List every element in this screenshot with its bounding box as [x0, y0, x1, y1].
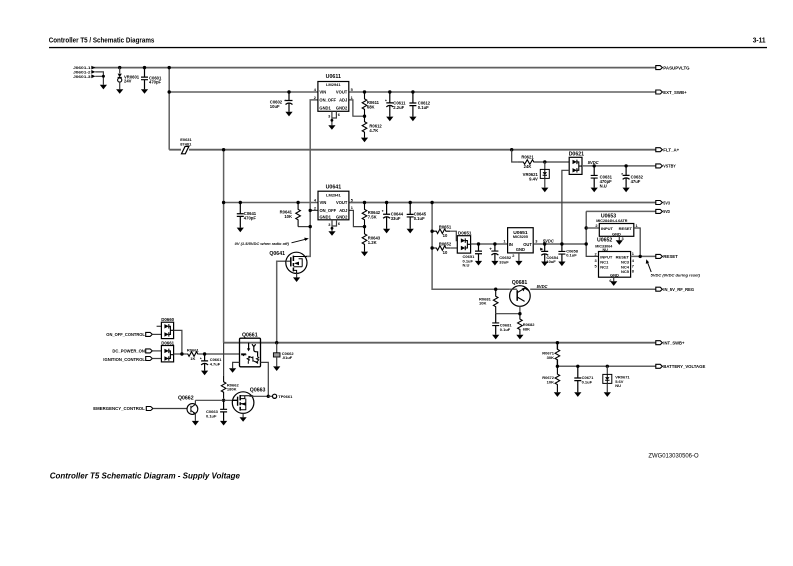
svg-text:GND: GND [612, 231, 621, 236]
ground for Q0662 [192, 421, 199, 426]
junction dot Q0661 on INT_SWB+ bus [275, 341, 278, 344]
capacitor C0602 10uF (polarized) [286, 92, 293, 101]
wire Q0661 emitter to ground [233, 362, 240, 368]
connector RESET [656, 254, 663, 258]
wire U0641 ON_OFF stub [310, 209, 318, 211]
svg-text:N.U: N.U [600, 183, 607, 188]
svg-text:GND1: GND1 [319, 106, 331, 111]
wire U0653 RESET down to RESET line [634, 228, 640, 256]
svg-text:IGNITION_CONTROL: IGNITION_CONTROL [103, 357, 145, 362]
svg-text:U0641: U0641 [326, 184, 342, 190]
svg-text:D0621: D0621 [569, 151, 584, 157]
wire D0660 output down to R0661 node [174, 330, 182, 354]
wire Q0681 base to divider [519, 306, 521, 313]
junction dot R0681 [494, 288, 497, 291]
wire R0641 bottom to ON_OFF vertical [298, 226, 310, 228]
resistor R0651 10 [432, 229, 450, 234]
svg-text:VIN: VIN [320, 200, 327, 205]
connector VSTBY [656, 164, 663, 168]
svg-text:PASUPVLTG: PASUPVLTG [663, 65, 690, 70]
resistor R0652 10 [432, 246, 450, 251]
resistor R0621 24K [518, 160, 540, 165]
svg-text:30K: 30K [547, 355, 554, 360]
connector 5V3 [656, 201, 663, 205]
wire D0651 output to U0651 IN [471, 243, 508, 245]
ground for C0602 [285, 112, 292, 117]
wire BATTERY_VOLTAGE line [557, 365, 656, 367]
svg-text:Controller T5 Schematic Diagra: Controller T5 Schematic Diagram - Supply… [50, 471, 241, 480]
svg-text:10: 10 [443, 250, 448, 255]
svg-text:0.1uF: 0.1uF [582, 380, 593, 385]
svg-text:180K: 180K [227, 387, 237, 392]
svg-text:R0621: R0621 [521, 155, 534, 160]
svg-text:VOUT: VOUT [336, 200, 348, 205]
svg-text:87401: 87401 [180, 142, 192, 147]
svg-text:10K: 10K [479, 301, 486, 306]
ground for R0682 [516, 335, 523, 340]
svg-text:.01uF: .01uF [282, 355, 293, 360]
ground for C0671 [574, 392, 581, 397]
svg-text:DC_POWER_ON: DC_POWER_ON [112, 349, 145, 354]
svg-text:10K: 10K [547, 379, 554, 384]
svg-text:LM2941: LM2941 [326, 82, 341, 87]
svg-text:EMERGENCY_CONTROL: EMERGENCY_CONTROL [93, 406, 145, 411]
svg-text:5V3: 5V3 [663, 200, 670, 205]
svg-text:GND: GND [516, 247, 525, 252]
resistor R0611 68K [362, 92, 367, 116]
capacitor C0681 0.1uF [492, 314, 499, 335]
ground for C0654 [541, 262, 548, 267]
svg-text:47uF: 47uF [631, 179, 641, 184]
wire down from FLT bus to R0621 [512, 150, 518, 162]
wire Q0641 source to ground [296, 273, 298, 277]
resistor R0671 30K [555, 343, 560, 367]
wire U0611 ADJ to R0611/R0612 junction [349, 100, 365, 116]
wire Q0681 to IN_5V_RF_REG connector [530, 288, 656, 290]
svg-text:GND: GND [610, 272, 619, 277]
svg-text:0.1uF: 0.1uF [566, 253, 577, 258]
wire ON_OFF_CONTROL to D0660 [152, 333, 161, 335]
capacitor C0641 470pF [239, 201, 242, 204]
svg-text:Controller T5 / Schematic Diag: Controller T5 / Schematic Diagrams [49, 37, 155, 44]
svg-text:7.5K: 7.5K [368, 215, 377, 220]
ground for C0612 [409, 117, 416, 122]
ground for C0601 [141, 89, 148, 94]
wire battery divider tap line [556, 343, 558, 367]
resistor R0642 7.5K [362, 203, 367, 227]
U0651 GND pin to ground [518, 253, 520, 261]
svg-text:2.2uF: 2.2uF [393, 105, 404, 110]
svg-text:Q0662: Q0662 [178, 396, 194, 402]
ground for VR0621 [541, 188, 548, 193]
wire Q0662 collector line to Q0663 gate [195, 399, 232, 401]
ground for C0658 [558, 262, 565, 267]
wire long vertical A+ branch x=223.6 [223, 150, 225, 343]
wire 5V3 bus from U0641 VOUT to connector [349, 202, 657, 204]
wire FLT_A+ bus (through E0631 bead) [169, 149, 656, 151]
junction dot ADJ node [363, 115, 366, 118]
svg-text:VSTBY: VSTBY [663, 164, 676, 169]
wire A+ top bus [92, 67, 657, 69]
junction dot C0654 [543, 242, 546, 245]
svg-text:ON_OFF: ON_OFF [319, 97, 336, 102]
wire 5VDC vertical to reset ICs [586, 211, 598, 256]
header rule [49, 47, 767, 48]
junction dot VR0601 [118, 66, 121, 69]
capacitor C0663 0.1uF [220, 400, 227, 421]
junction dot C0612 [411, 90, 414, 93]
resistor R0682 68K [518, 314, 523, 335]
junction dot C0645 [409, 201, 412, 204]
svg-text:5VDC: 5VDC [537, 284, 548, 289]
junction dot 5VD feed branch [430, 201, 433, 204]
svg-text:IN_5V_RF_REG: IN_5V_RF_REG [663, 287, 694, 292]
op-amp U0651 MIC5205 regulator box [508, 228, 534, 253]
wire Q0662 emitter to ground [194, 414, 196, 421]
junction dot C0631 [593, 164, 596, 167]
svg-text:ON_OFF: ON_OFF [320, 208, 337, 213]
connector 5VD [656, 209, 663, 213]
svg-text:J0601-3: J0601-3 [73, 74, 91, 79]
wire U0611 VOUT to EXT_SWB+ connector [349, 91, 657, 93]
op-amp U0641 LM2941 regulator box [318, 191, 349, 220]
wire U0652 RESET to RESET connector [631, 255, 657, 257]
junction dot TP line [267, 395, 270, 398]
wire DC_POWER_ON to D0661 [152, 350, 161, 352]
ground for U0653 [616, 240, 623, 245]
junction dot R0651 [430, 230, 433, 233]
wire D0660 top diode stub [157, 325, 162, 327]
svg-text:*: * [200, 356, 202, 361]
ground for VR0671 [604, 392, 611, 397]
svg-text:3-11: 3-11 [753, 37, 766, 44]
wire R0661 to Q0661 input [199, 353, 240, 355]
ground for C0663 [220, 421, 227, 426]
svg-text:+: + [489, 246, 492, 251]
svg-text:MIC2844N-4.6ATR: MIC2844N-4.6ATR [596, 219, 628, 223]
op-amp U0611 LM2941 regulator box [318, 82, 349, 112]
connector BATTERY_VOLTAGE [656, 364, 663, 368]
junction dot INT_SWB+ divider [556, 341, 559, 344]
svg-text:470pF: 470pF [244, 216, 257, 221]
junction dot C0658 [560, 242, 563, 245]
wire 5VD vertical feed x=432.1 down to IN_5V_RF_REG line [432, 203, 510, 290]
svg-text:ON_OFF_CONTROL: ON_OFF_CONTROL [106, 332, 145, 337]
junction dot C0632 [624, 164, 627, 167]
ground for U0611 [328, 125, 335, 130]
capacitor C0612 0.1uF [409, 92, 416, 117]
U0611 ground pins 3 and 6 [332, 111, 337, 125]
junction dot VR0671 [606, 365, 609, 368]
wire to TP0661 [268, 395, 272, 397]
junction dot C0671 [576, 365, 579, 368]
capacitor C0662 .01uF (chip cap) [276, 343, 278, 353]
ground for Q0663 [240, 417, 247, 422]
svg-text:LM2941: LM2941 [326, 193, 341, 198]
svg-text:68K: 68K [367, 105, 375, 110]
junction dot D0660/D0661 outputs [180, 352, 183, 355]
junction dot C0611 [388, 90, 391, 93]
svg-text:*: * [621, 172, 623, 177]
connector IN_5V_RF_REG [656, 287, 663, 291]
svg-text:0V (1.5/5VDC when radio off): 0V (1.5/5VDC when radio off) [235, 241, 290, 246]
svg-text:*: * [284, 98, 286, 103]
svg-text:D0660: D0660 [161, 317, 174, 322]
svg-text:INPUT: INPUT [600, 254, 613, 259]
junction dot C0651 [477, 242, 480, 245]
junction dot ADJ node U0641 [363, 225, 366, 228]
svg-text:33uF: 33uF [391, 216, 401, 221]
ground for C0652 [491, 261, 498, 266]
resistor R0643 1.2K [362, 227, 367, 252]
capacitor C0671 0.1uF [574, 366, 581, 392]
junction dot C0601 [143, 66, 146, 69]
wire Q0662 collector up to gate line [194, 400, 196, 404]
connector FLT_A+ [656, 148, 663, 152]
U0641 ground pins 3 and 6 [332, 220, 337, 231]
svg-text:R0652: R0652 [439, 241, 452, 246]
svg-text:RESET: RESET [663, 254, 678, 259]
ground for C0641 [237, 228, 244, 233]
svg-text:ADJ: ADJ [339, 97, 347, 102]
svg-text:BATTERY_VOLTAGE: BATTERY_VOLTAGE [663, 364, 705, 369]
junction dot R0652 [430, 246, 433, 249]
svg-text:VIN: VIN [319, 89, 326, 94]
ground for R0672 [554, 392, 561, 397]
ground for U0651 [515, 261, 522, 266]
ground for C0651 [475, 261, 482, 266]
svg-text:D0661: D0661 [161, 341, 174, 346]
wire Q0641 gate down to INT_SWB+ bus [277, 261, 286, 343]
svg-text:0.1uF: 0.1uF [414, 216, 425, 221]
svg-text:0.1uF: 0.1uF [206, 414, 217, 419]
ground for U0652 [610, 281, 617, 286]
junction dot C0652 [493, 242, 496, 245]
svg-text:NU: NU [615, 383, 621, 388]
svg-text:470pF: 470pF [149, 80, 162, 85]
svg-text:U0611: U0611 [326, 74, 341, 80]
resistor R0672 10K [555, 366, 560, 392]
svg-text:FLT_A+: FLT_A+ [663, 148, 679, 153]
junction dot Q0681 base node [518, 312, 521, 315]
junction dot C0644 [385, 201, 388, 204]
ground for VR0601 [116, 89, 123, 94]
junction dot C0661 [203, 352, 206, 355]
wire Q0663 source to ground [242, 413, 244, 417]
wire vertical from A+ bus down to FLT bus [168, 68, 170, 150]
svg-text:24V: 24V [124, 79, 132, 84]
svg-text:TP0661: TP0661 [278, 394, 293, 399]
junction dot R0642 [363, 201, 366, 204]
junction dot R0641 bottom [309, 225, 312, 228]
wire D0661 output to R0661 [174, 353, 187, 355]
svg-text:10uF: 10uF [270, 104, 280, 109]
ground for J0601 pins [100, 85, 107, 90]
ferrite bead E0631 87401 [182, 146, 189, 153]
svg-text:4.7K: 4.7K [369, 128, 378, 133]
junction dot Q0663 gate node [222, 399, 225, 402]
ground for U0641 [328, 231, 335, 236]
svg-text:5VD: 5VD [663, 209, 670, 214]
svg-text:33uF: 33uF [499, 260, 509, 265]
capacitor C0658 0.1uF [558, 244, 565, 262]
wire U0611 ON_OFF control vertical down to Q0641 drain [306, 100, 318, 257]
junction dot 5V3/VIN branch [222, 201, 225, 204]
svg-text:GND2: GND2 [336, 214, 348, 219]
svg-text:VOUT: VOUT [336, 89, 348, 94]
svg-text:R0661: R0661 [187, 348, 200, 353]
connector PASUPVLTG [656, 66, 663, 70]
wire Q0663 drain to TP line [249, 395, 268, 397]
wire Q0661 output down to TP0661 line [261, 362, 269, 396]
wire R0662 bottom to Q0663 gate node [223, 398, 225, 400]
resistor R0662 180K (on A+ vertical) [223, 343, 225, 376]
zener VR0621 9.4V [544, 162, 546, 169]
ground for C0631 [591, 188, 598, 193]
ground for R0643 [361, 252, 368, 257]
resistor R0681 10K [493, 289, 498, 314]
U0652 GND to ground [613, 277, 615, 281]
svg-text:*: * [385, 99, 387, 104]
svg-text:U0652: U0652 [597, 237, 612, 243]
junction dot VR0621 [543, 160, 546, 163]
wire IGNITION_CONTROL to D0661 [152, 358, 161, 360]
ground for Q0661 [229, 368, 236, 373]
wire R0651 to D0651 top diode [450, 231, 457, 240]
wire EXT_SWB+ bus left segment to U0611 VIN [169, 91, 318, 93]
svg-text:0.1uF: 0.1uF [418, 105, 429, 110]
zener VR0671 5.6V NU [606, 366, 608, 374]
resistor R0641 10K [296, 201, 299, 204]
junction dot R0621 branch [510, 148, 513, 151]
connector INT_SWB+ [656, 341, 663, 345]
U0653 GND to ground [618, 236, 620, 240]
svg-text:EXT_SWB+: EXT_SWB+ [663, 90, 687, 95]
ground for Q0641 [293, 277, 300, 282]
wire U0641 ADJ to R0642/R0643 junction [349, 210, 365, 226]
svg-text:GND2: GND2 [336, 106, 348, 111]
capacitor C0661 4.7uF (polarized) [201, 354, 208, 361]
svg-text:10K: 10K [284, 214, 292, 219]
capacitor C0651 0.1uF N.U. [475, 244, 482, 261]
svg-text:ADJ: ADJ [339, 208, 347, 213]
wire D0621 output to VSTBY [582, 165, 657, 167]
junction dot battery voltage node [556, 365, 559, 368]
resistor R0661 1K [187, 352, 199, 357]
svg-text:Q0641: Q0641 [269, 251, 285, 257]
ground for C0632 [623, 188, 630, 193]
svg-text:R0651: R0651 [439, 225, 452, 230]
ground for C0662 [273, 366, 280, 371]
wire U0653 INPUT stub [586, 227, 599, 229]
wire U0651 OUT 5VDC line [533, 243, 586, 245]
wire 5VD line [586, 210, 656, 212]
wire R0652 to D0651 bottom diode [450, 247, 457, 249]
svg-text:1K: 1K [190, 356, 195, 361]
junction dot R0611 [363, 90, 366, 93]
junction dot U0653 input [585, 226, 588, 229]
svg-text:1.2K: 1.2K [368, 240, 377, 245]
svg-text:INT_SWB+: INT_SWB+ [663, 341, 685, 346]
svg-text:4.7uF: 4.7uF [210, 361, 221, 366]
ground for C0661 [201, 371, 208, 376]
wire 5VDC feed up to D0621 (from U0651 output) [562, 170, 569, 244]
test point TP0661 [273, 394, 277, 398]
wire EMERGENCY_CONTROL to Q0662 base [153, 408, 187, 410]
svg-text:9.4V: 9.4V [529, 177, 538, 182]
svg-text:RESET: RESET [616, 254, 630, 259]
svg-text:Q0661: Q0661 [242, 332, 258, 338]
svg-text:N.U: N.U [463, 263, 470, 268]
svg-text:24K: 24K [524, 164, 532, 169]
capacitor C0644 33uF (polarized) [383, 203, 390, 215]
capacitor C0632 47uF (polarized) [623, 166, 630, 175]
capacitor C0652 33uF (polarized) [491, 244, 498, 251]
svg-text:NC5: NC5 [621, 269, 630, 274]
svg-text:GND1: GND1 [320, 214, 332, 219]
svg-text:68K: 68K [523, 326, 530, 331]
wire J0601-2/3 to ground [95, 72, 103, 85]
svg-text:5VDC: 5VDC [588, 160, 599, 165]
capacitor C0654 10uF (polarized) [541, 244, 548, 251]
capacitor C0631 470pF N.U. [591, 166, 598, 188]
svg-text:10: 10 [443, 233, 448, 238]
svg-text:5VDC (0VDC during reset): 5VDC (0VDC during reset) [651, 273, 701, 278]
connector EXT_SWB+ [656, 90, 663, 94]
svg-text:*: * [382, 209, 384, 214]
svg-text:0.1uF: 0.1uF [500, 327, 511, 332]
capacitor C0645 0.1uF [407, 203, 414, 229]
svg-text:ZWG013030506-O: ZWG013030506-O [648, 453, 699, 459]
ground for C0681 [492, 335, 499, 340]
svg-text:NC2: NC2 [600, 264, 609, 269]
wire R0621 to D0621 [540, 161, 570, 163]
ground for C0644 [383, 229, 390, 234]
junction dot 5VDC line end [585, 242, 588, 245]
ground for C0611 [386, 117, 393, 122]
svg-text:D0651: D0651 [458, 231, 472, 236]
junction dot FLT branch [222, 148, 225, 151]
wire INT_SWB+ bus [224, 342, 657, 344]
capacitor C0601 470pF [141, 68, 148, 90]
ground for R0612 [361, 138, 368, 143]
junction dot U0641 ON_OFF [309, 209, 312, 212]
svg-text:MIC5205: MIC5205 [513, 235, 528, 239]
junction dot RESET line [639, 255, 642, 258]
junction dot EXT branch [168, 90, 171, 93]
varistor VR0601 24V [119, 68, 121, 74]
junction dot C0602 [287, 90, 290, 93]
junction dot A+ bus to vertical [168, 66, 171, 69]
svg-text:IN: IN [509, 242, 513, 247]
wire U0641 VIN segment [224, 202, 318, 204]
wire R0681 bottom to Q0681 base [496, 313, 520, 315]
resistor R0612 4.7K [362, 116, 367, 137]
capacitor C0611 2.2uF (polarized) [386, 92, 393, 103]
svg-text:Q0663: Q0663 [250, 387, 266, 393]
ground for C0645 [407, 229, 414, 234]
